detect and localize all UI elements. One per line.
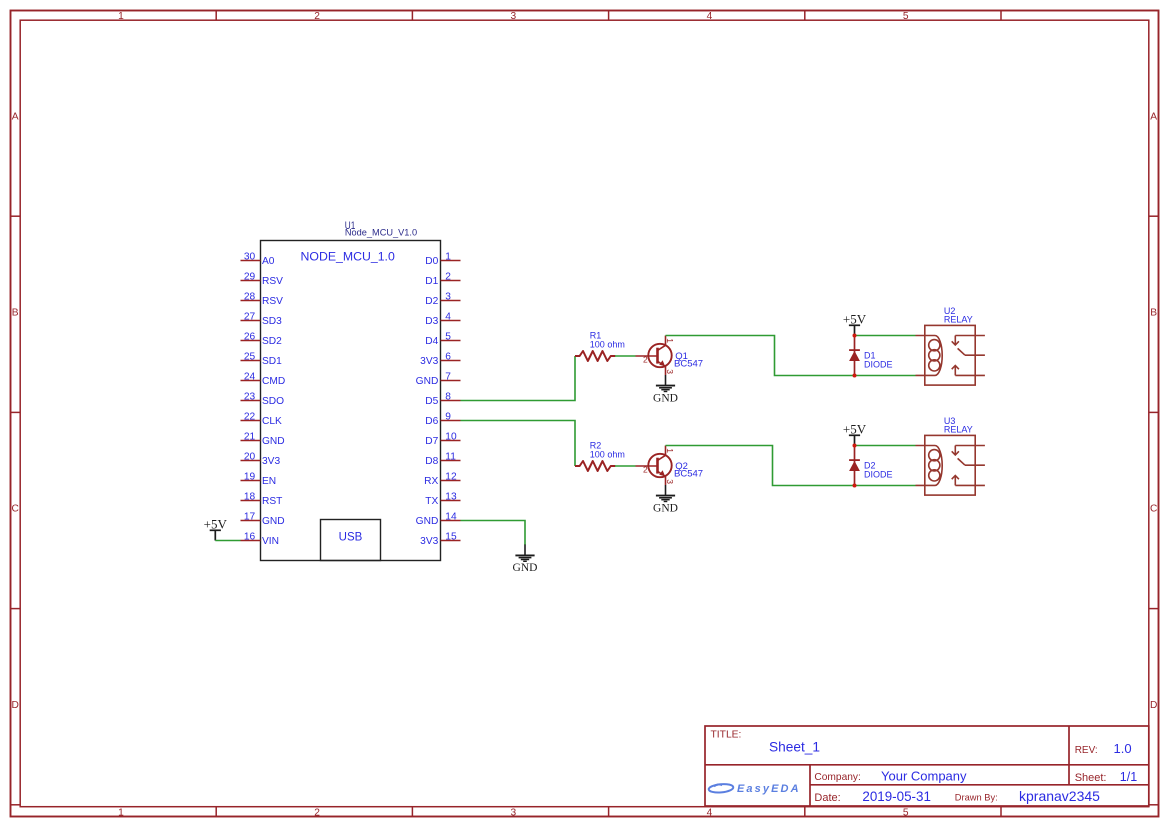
svg-text:CLK: CLK (262, 416, 282, 427)
svg-text:BC547: BC547 (674, 469, 703, 480)
svg-text:5: 5 (903, 808, 909, 819)
svg-text:4: 4 (707, 11, 713, 22)
U3 coil pin lines (916, 445, 936, 447)
wire R2 to Q2 base (615, 465, 636, 467)
svg-text:SD3: SD3 (262, 316, 282, 327)
svg-text:RELAY: RELAY (944, 314, 973, 324)
svg-text:1: 1 (445, 252, 451, 263)
svg-text:GND: GND (262, 516, 285, 527)
diode D2 (flyback) (849, 446, 860, 486)
svg-text:D1: D1 (425, 276, 438, 287)
svg-text:3V3: 3V3 (262, 456, 280, 467)
svg-text:D5: D5 (425, 396, 438, 407)
svg-text:20: 20 (244, 452, 256, 463)
U1 pin 11 (D8) (425, 452, 460, 467)
U1 pin 20 (3V3) (241, 452, 281, 467)
ground symbol (U1 GND net) (513, 555, 538, 574)
svg-text:2019-05-31: 2019-05-31 (862, 789, 931, 804)
svg-text:SDO: SDO (262, 396, 284, 407)
junction node D2 anode / collector rail (853, 484, 857, 488)
EasyEDA logo (708, 783, 800, 795)
relay U2 body (916, 325, 985, 385)
svg-text:1/1: 1/1 (1120, 770, 1137, 784)
svg-text:RSV: RSV (262, 296, 283, 307)
svg-text:1: 1 (665, 338, 675, 343)
svg-text:RSV: RSV (262, 276, 283, 287)
junction node D1 cathode / +5V (853, 334, 857, 338)
svg-text:GND: GND (653, 502, 678, 514)
svg-text:22: 22 (244, 412, 256, 423)
svg-text:kpranav2345: kpranav2345 (1019, 788, 1100, 804)
svg-text:3: 3 (445, 292, 451, 303)
svg-text:SD2: SD2 (262, 336, 282, 347)
svg-text:13: 13 (445, 492, 457, 503)
svg-text:GND: GND (416, 376, 439, 387)
U1 pin 28 (RSV) (241, 292, 284, 307)
svg-text:2: 2 (314, 808, 320, 819)
svg-text:2: 2 (314, 11, 320, 22)
wire D5 pin8 to R1 (461, 356, 576, 401)
U1 pin 14 (GND) (416, 512, 461, 527)
svg-text:2: 2 (643, 465, 648, 475)
svg-text:21: 21 (244, 432, 256, 443)
svg-text:C: C (1150, 504, 1157, 515)
U1 pin 1 (D0) (425, 252, 460, 267)
U1 pin 25 (SD1) (241, 352, 283, 367)
U1 pin 18 (RST) (241, 492, 283, 507)
U3 switch contact (954, 446, 956, 456)
U1 pin 23 (SDO) (241, 392, 285, 407)
svg-text:A: A (1150, 111, 1157, 122)
U3 coil (935, 446, 942, 486)
svg-text:27: 27 (244, 312, 256, 323)
resistor R1 (575, 351, 615, 361)
U1 pin 19 (EN) (241, 472, 277, 487)
svg-text:28: 28 (244, 292, 256, 303)
svg-text:16: 16 (244, 532, 256, 543)
svg-text:3V3: 3V3 (420, 536, 438, 547)
U2 right pin lines (955, 335, 985, 337)
svg-text:A: A (12, 111, 19, 122)
svg-text:D2: D2 (425, 296, 438, 307)
svg-text:+5V: +5V (843, 421, 867, 436)
wire +5V to relay U3 coil+ (855, 445, 916, 447)
junction node D1 anode / collector rail (853, 374, 857, 378)
ground stem pin14 (524, 545, 526, 556)
svg-text:RST: RST (262, 496, 282, 507)
wire D6 pin9 to R2 (461, 421, 576, 467)
U2 coil (935, 336, 942, 376)
svg-text:30: 30 (244, 252, 256, 263)
U1 pin 6 (3V3) (420, 352, 460, 367)
U3 right pin lines (955, 445, 985, 447)
svg-text:B: B (12, 308, 19, 319)
resistor R2 (575, 461, 615, 471)
U2 switch contact (954, 336, 956, 346)
svg-text:3: 3 (510, 11, 516, 22)
wire U1 pin14 GND (461, 521, 526, 546)
svg-text:6: 6 (445, 352, 451, 363)
diode D1 (flyback) (849, 336, 860, 376)
U1 pin 17 (GND) (241, 512, 285, 527)
svg-text:25: 25 (244, 352, 256, 363)
svg-text:11: 11 (445, 452, 456, 463)
svg-text:DIODE: DIODE (864, 470, 893, 480)
svg-text:15: 15 (445, 532, 457, 543)
svg-text:Date:: Date: (814, 792, 840, 804)
USB connector box on U1 (321, 520, 381, 561)
svg-text:Company:: Company: (814, 772, 860, 783)
svg-text:EasyEDA: EasyEDA (737, 783, 801, 795)
svg-text:TITLE:: TITLE: (711, 730, 742, 741)
U1 pin 3 (D2) (425, 292, 460, 307)
svg-text:3: 3 (510, 808, 516, 819)
svg-text:EN: EN (262, 476, 276, 487)
wire Q1 collector to relay U2 coil- (666, 336, 916, 376)
svg-text:5: 5 (445, 332, 451, 343)
svg-text:17: 17 (244, 512, 256, 523)
transistor Q2 (BC547) (636, 446, 676, 486)
svg-text:8: 8 (445, 392, 451, 403)
svg-text:GND: GND (416, 516, 439, 527)
svg-text:12: 12 (445, 472, 457, 483)
svg-text:24: 24 (244, 372, 256, 383)
svg-text:3: 3 (665, 369, 675, 374)
svg-text:D4: D4 (425, 336, 438, 347)
svg-text:14: 14 (445, 512, 457, 523)
power +5V symbol (D1 cathode rail ch1) (843, 311, 867, 335)
ground stem Q2 emitter (665, 485, 667, 496)
wire R1 to Q1 base (615, 355, 636, 357)
ground stem Q1 emitter (665, 375, 667, 386)
svg-text:D3: D3 (425, 316, 438, 327)
U1 pin 30 (A0) (241, 252, 275, 267)
U1 pin 26 (SD2) (241, 332, 283, 347)
svg-text:D8: D8 (425, 456, 438, 467)
ground symbol (Q2 emitter) (653, 496, 678, 515)
svg-text:D0: D0 (425, 256, 438, 267)
U1 pin 10 (D7) (425, 432, 460, 447)
transistor Q1 (BC547) (636, 336, 676, 376)
svg-text:DIODE: DIODE (864, 360, 893, 370)
svg-text:C: C (12, 504, 19, 515)
svg-text:GND: GND (513, 562, 538, 574)
U1 pin 21 (GND) (241, 432, 285, 447)
svg-text:3V3: 3V3 (420, 356, 438, 367)
relay U3 body (916, 435, 985, 495)
svg-text:REV:: REV: (1075, 745, 1098, 756)
svg-text:GND: GND (262, 436, 285, 447)
svg-text:18: 18 (244, 492, 256, 503)
svg-text:A0: A0 (262, 256, 275, 267)
svg-text:4: 4 (707, 808, 713, 819)
svg-text:NODE_MCU_1.0: NODE_MCU_1.0 (301, 249, 395, 263)
power +5V symbol (D2 cathode rail ch2) (843, 421, 867, 445)
svg-text:9: 9 (445, 412, 451, 423)
U1 pin 9 (D6) (425, 412, 460, 427)
svg-text:1: 1 (118, 11, 124, 22)
svg-text:SD1: SD1 (262, 356, 282, 367)
svg-text:100 ohm: 100 ohm (590, 450, 625, 460)
wire +5V to U1 pin16 VIN (215, 540, 240, 542)
svg-text:BC547: BC547 (674, 359, 703, 370)
svg-text:USB: USB (339, 532, 363, 544)
wire Q2 collector to relay U3 coil- (666, 446, 916, 486)
U1 pin 22 (CLK) (241, 412, 283, 427)
U1 pin 24 (CMD) (241, 372, 286, 387)
U1 pin 13 (TX) (425, 492, 460, 507)
svg-text:D: D (12, 700, 19, 711)
U1 pin 29 (RSV) (241, 272, 284, 287)
svg-text:VIN: VIN (262, 536, 279, 547)
svg-text:D7: D7 (425, 436, 438, 447)
op-amp U1 NodeMCU body (261, 241, 441, 561)
U1 pin 15 (3V3) (420, 532, 460, 547)
ground symbol (Q1 emitter) (653, 386, 678, 405)
svg-text:Sheet:: Sheet: (1075, 772, 1107, 784)
svg-text:1: 1 (665, 448, 675, 453)
U1 pin 27 (SD3) (241, 312, 283, 327)
power +5V symbol (VIN supply) (204, 516, 228, 540)
svg-text:29: 29 (244, 272, 256, 283)
svg-text:2: 2 (643, 355, 648, 365)
U1 pin 16 (VIN) (241, 532, 279, 547)
U1 pin 2 (D1) (425, 272, 460, 287)
svg-text:4: 4 (445, 312, 451, 323)
svg-text:5: 5 (903, 11, 909, 22)
svg-text:Drawn By:: Drawn By: (955, 792, 998, 802)
svg-text:TX: TX (425, 496, 438, 507)
svg-text:10: 10 (445, 432, 457, 443)
svg-text:+5V: +5V (843, 311, 867, 326)
wire +5V to relay U2 coil+ (855, 335, 916, 337)
junction node D2 cathode / +5V (853, 444, 857, 448)
svg-text:2: 2 (445, 272, 451, 283)
U1 pin 4 (D3) (425, 312, 460, 327)
svg-text:1: 1 (118, 808, 124, 819)
U1 pin 5 (D4) (425, 332, 460, 347)
svg-text:23: 23 (244, 392, 256, 403)
svg-text:26: 26 (244, 332, 256, 343)
svg-text:B: B (1150, 308, 1157, 319)
svg-text:D: D (1150, 700, 1157, 711)
svg-text:7: 7 (445, 372, 451, 383)
U1 pin 7 (GND) (416, 372, 461, 387)
svg-text:Node_MCU_V1.0: Node_MCU_V1.0 (345, 228, 417, 239)
svg-text:3: 3 (665, 479, 675, 484)
svg-text:Your Company: Your Company (881, 769, 967, 784)
svg-text:CMD: CMD (262, 376, 285, 387)
svg-text:RELAY: RELAY (944, 424, 973, 434)
svg-text:GND: GND (653, 392, 678, 404)
U2 coil pin lines (916, 335, 936, 337)
U1 pin 12 (RX) (424, 472, 460, 487)
svg-text:Sheet_1: Sheet_1 (769, 739, 820, 754)
svg-text:19: 19 (244, 472, 256, 483)
svg-text:100 ohm: 100 ohm (590, 340, 625, 350)
svg-text:RX: RX (424, 476, 438, 487)
svg-text:D6: D6 (425, 416, 438, 427)
svg-text:+5V: +5V (204, 516, 228, 531)
U1 pin 8 (D5) (425, 392, 460, 407)
svg-text:1.0: 1.0 (1114, 741, 1132, 756)
